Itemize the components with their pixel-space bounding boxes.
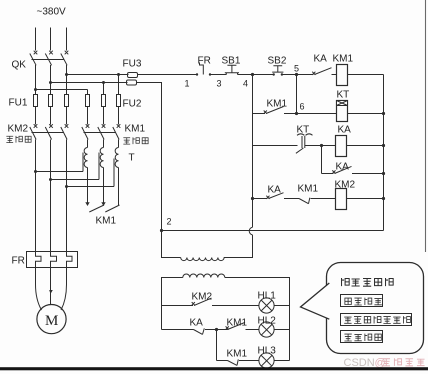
wire L3 KM2 to FR box [66, 140, 68, 252]
fuse FU1 pole2 [49, 95, 53, 107]
contactor KM1 NC contact lamp row3 [228, 359, 260, 365]
wire branch3 fuse to KM1 contact [118, 107, 120, 125]
autotransformer T winding 1 [84, 140, 87, 168]
wire tap 2 to motor line L2 [49, 153, 99, 182]
svg-text:KM1: KM1 [227, 349, 248, 360]
wire L1 fuse to KM2 contact [35, 107, 37, 125]
note box dianyuan zhishi (power indication) [341, 295, 383, 307]
contactor KM1 NC interlock contact [299, 198, 336, 204]
wire FR to motor right [61, 268, 67, 311]
wire FU3a to FR contact [138, 74, 197, 76]
wire FR to motor left [36, 268, 42, 311]
contactor KM2 main contact pole3 [61, 124, 69, 139]
FR heater element 2 [51, 252, 57, 268]
lamp HL2 [259, 322, 274, 337]
fuse FU2 pole3 [117, 95, 121, 107]
relay KA NO contact row4 [266, 193, 299, 199]
pushbutton SB1 stop NC [225, 65, 239, 74]
wire return line to node2 [162, 230, 384, 232]
junction rail row3 [382, 144, 385, 147]
contactor KM2 main contact pole2 [45, 124, 53, 139]
wire KM2 coil to rail [347, 198, 384, 200]
svg-text:HL2: HL2 [258, 316, 277, 327]
contactor KM1 star contact b [101, 202, 119, 212]
svg-text:KM1: KM1 [267, 99, 288, 110]
contactor KM1 main contact pole1 [82, 124, 90, 139]
svg-text:FU1: FU1 [9, 98, 28, 109]
svg-text:KM2: KM2 [335, 180, 356, 191]
junction branch x103 on feed 2 [102, 81, 105, 84]
watermark user id [375, 357, 425, 369]
svg-text:KM1: KM1 [125, 124, 146, 135]
wire branch2 fuse to KM1 contact [103, 107, 105, 125]
wire node5 to node6 [296, 75, 298, 114]
wire branch1 fuse to KM1 contact [87, 107, 89, 125]
wire branch down to KA hold row [321, 146, 323, 174]
wire left rail node4 down [252, 75, 254, 228]
svg-text:KM2: KM2 [192, 292, 213, 303]
relay KA NC contact row1 [312, 68, 336, 75]
wire lamp row2 left [162, 329, 194, 331]
svg-text:5: 5 [294, 64, 299, 74]
contactor KM1 aux NO contact lamp row2 [217, 322, 260, 329]
junction L2 feed [49, 81, 52, 84]
relay KA NO holding contact [332, 166, 383, 173]
junction branch x118 on feed 1 [117, 73, 120, 76]
svg-text:KA: KA [314, 54, 328, 65]
wire SB1 to node4 [238, 74, 253, 76]
coil KM2 [336, 189, 347, 210]
svg-text:FR: FR [198, 56, 211, 67]
junction node5 [295, 73, 298, 76]
wire lamp row1 left [162, 305, 194, 307]
wire L3 fuse to KM2 contact [66, 107, 68, 125]
wire control feed line from L3 at y75 to FU3a [67, 74, 129, 76]
time relay KT delayed NO contact [296, 134, 322, 154]
fuse FU1 pole1 [34, 95, 38, 107]
wire control feed line from L2 at y82 to FU3b [51, 82, 128, 84]
svg-text:HL1: HL1 [258, 291, 277, 302]
wire row4 from rail [253, 198, 268, 200]
autotransformer T winding 3 [115, 140, 118, 168]
contactor KM1 aux NO holding contact [264, 107, 297, 114]
coil KA [336, 136, 347, 157]
contactor KM1 star contact a [85, 202, 104, 212]
svg-text:SB1: SB1 [222, 56, 241, 67]
callout bubble body [327, 263, 424, 354]
lamp transformer primary [162, 231, 225, 261]
wire L2 fuse to KM2 contact [50, 107, 52, 125]
autotransformer T winding 2 [100, 140, 103, 168]
KM2 linkage bar [32, 132, 65, 134]
coil KM1 [337, 65, 348, 86]
wire tap 3 to motor line L3 [65, 159, 114, 189]
svg-text:KM1: KM1 [298, 184, 319, 195]
FR heater element 3 [67, 252, 73, 268]
wire branch x87 down [87, 90, 89, 95]
svg-text:QK: QK [12, 60, 27, 71]
QK linkage bar [32, 59, 65, 61]
wire L2 QK to FU1 [50, 65, 52, 95]
wire KT coil to rail [348, 113, 384, 115]
wire L1 KM2 to FR box [35, 140, 37, 252]
svg-text:T: T [129, 153, 135, 164]
svg-text:KA: KA [190, 318, 204, 329]
svg-text:2: 2 [167, 217, 172, 227]
wire branch feed from L1 at y90 to x87 [36, 89, 88, 91]
svg-text:HL3: HL3 [258, 346, 277, 357]
wire node5 to KA contact [297, 74, 314, 76]
svg-text:KM1: KM1 [333, 54, 354, 65]
label zhujiedian left (main contact) [6, 136, 31, 143]
wire branch x118 down [118, 75, 120, 95]
wire node4 to SB2 [253, 74, 274, 76]
wire row2 from rail [253, 113, 266, 115]
switch QK pole 1 [30, 51, 38, 66]
svg-text:FU3: FU3 [123, 59, 142, 70]
contactor KM2 main contact pole1 [30, 124, 38, 139]
wire L1 QK to FU1 [35, 65, 37, 95]
svg-text:6: 6 [300, 102, 305, 112]
svg-text:4: 4 [243, 79, 248, 89]
wire KM1 coil to right rail [348, 74, 384, 76]
junction L1 feed [34, 88, 37, 91]
wire junction to KA coil [322, 145, 336, 147]
svg-text:KT: KT [297, 125, 310, 136]
junction rail KA hold row [382, 172, 385, 175]
svg-text:KA: KA [268, 185, 282, 196]
junction node2 return [160, 229, 163, 232]
svg-text:3: 3 [217, 79, 222, 89]
thermal relay FR heater box [27, 252, 78, 268]
fuse FU1 pole3 [65, 95, 69, 107]
svg-text:FR: FR [12, 256, 25, 267]
wire lamp row1 right [274, 305, 289, 307]
label zhujiedian right (main contact) [123, 137, 148, 144]
thermal relay FR NC contact [196, 63, 211, 76]
wire right rail [383, 75, 385, 231]
wire left rail below hop to lamp transformer primary [224, 235, 253, 258]
contactor KM2 aux NO contact lamp row1 [192, 298, 259, 305]
arrow on motor mid wire [49, 290, 53, 294]
wire L3 QK to FU1 [66, 65, 68, 95]
svg-text:KA: KA [336, 162, 350, 173]
wire FU3b to line 2 vertical [137, 83, 162, 231]
wire FR to motor mid [50, 268, 52, 305]
junction row3 branch [320, 144, 323, 147]
wire winding3 bottom [118, 168, 120, 206]
wire branch x103 down [103, 83, 105, 95]
wire phase L3 drop to QK [66, 28, 68, 51]
wire lamp row3 left [217, 360, 228, 362]
KM1 linkage bar [84, 132, 117, 134]
fuse FU3 upper [128, 73, 138, 78]
contactor KM1 main contact pole3 [113, 124, 121, 139]
page edge line right [425, 0, 427, 252]
lamp HL1 [259, 298, 274, 313]
svg-text:KT: KT [337, 90, 350, 101]
wire phase L1 drop to QK [35, 28, 37, 51]
coil KT time relay [337, 101, 348, 122]
svg-text:1: 1 [185, 79, 190, 89]
wire lamp row2 right [274, 329, 289, 331]
wire FR to SB1 [211, 74, 227, 76]
junction L3 feed [65, 73, 68, 76]
wire winding2 bottom [103, 168, 105, 203]
wire KA coil to rail [347, 145, 384, 147]
motor M [37, 305, 66, 334]
wire row3 from rail [253, 145, 298, 147]
junction rail row2 [382, 112, 385, 115]
FR heater element 1 [36, 252, 42, 268]
junction rail row4 left [251, 197, 254, 200]
junction node6 [295, 112, 298, 115]
note title zhishideng huilu (indicator lamp circuit) [341, 278, 393, 286]
wire lamp row3 right [274, 360, 289, 362]
svg-text:FU2: FU2 [123, 99, 142, 110]
switch QK pole 2 [45, 51, 53, 66]
bottom border bar [0, 367, 428, 370]
wire branch to lamp row3 [216, 330, 218, 361]
wire to KA hold contact [322, 173, 334, 175]
svg-text:~380V: ~380V [37, 7, 67, 18]
note box zi'ou bianyaqi qidong (autotransformer start) [341, 314, 412, 326]
wire node6 to KT coil [297, 113, 337, 115]
junction lamp row2 branch [215, 328, 218, 331]
wire L2 KM2 to FR box [50, 140, 52, 252]
note box zhengchang yunxing (normal running) [341, 331, 383, 343]
wire winding1 bottom [87, 168, 89, 203]
fuse FU2 pole1 [86, 95, 90, 107]
wire tap 1 to motor line L1 [34, 153, 83, 174]
lamp HL3 [259, 353, 274, 368]
wire hop of left rail over return line [249, 227, 252, 235]
lamp transformer secondary [162, 274, 290, 361]
wire phase L2 drop to QK [50, 28, 52, 51]
fuse FU2 pole2 [102, 95, 106, 107]
svg-text:KA: KA [338, 125, 352, 136]
junction rail row4 [382, 197, 385, 200]
pushbutton SB2 start NO [272, 66, 283, 76]
svg-text:KM2: KM2 [8, 124, 29, 135]
wire SB2 to node5 [282, 74, 297, 76]
fuse FU3 lower [127, 80, 137, 85]
junction node4 [251, 73, 254, 76]
callout bubble tail [301, 283, 330, 319]
relay KA NC contact lamp row2 [194, 328, 217, 334]
svg-text:KM1: KM1 [227, 318, 248, 329]
svg-text:M: M [45, 313, 58, 329]
svg-text:SB2: SB2 [268, 56, 287, 67]
contactor KM1 main contact pole2 [98, 124, 106, 139]
switch QK pole 3 [61, 51, 69, 66]
svg-text:KM1: KM1 [96, 216, 117, 227]
